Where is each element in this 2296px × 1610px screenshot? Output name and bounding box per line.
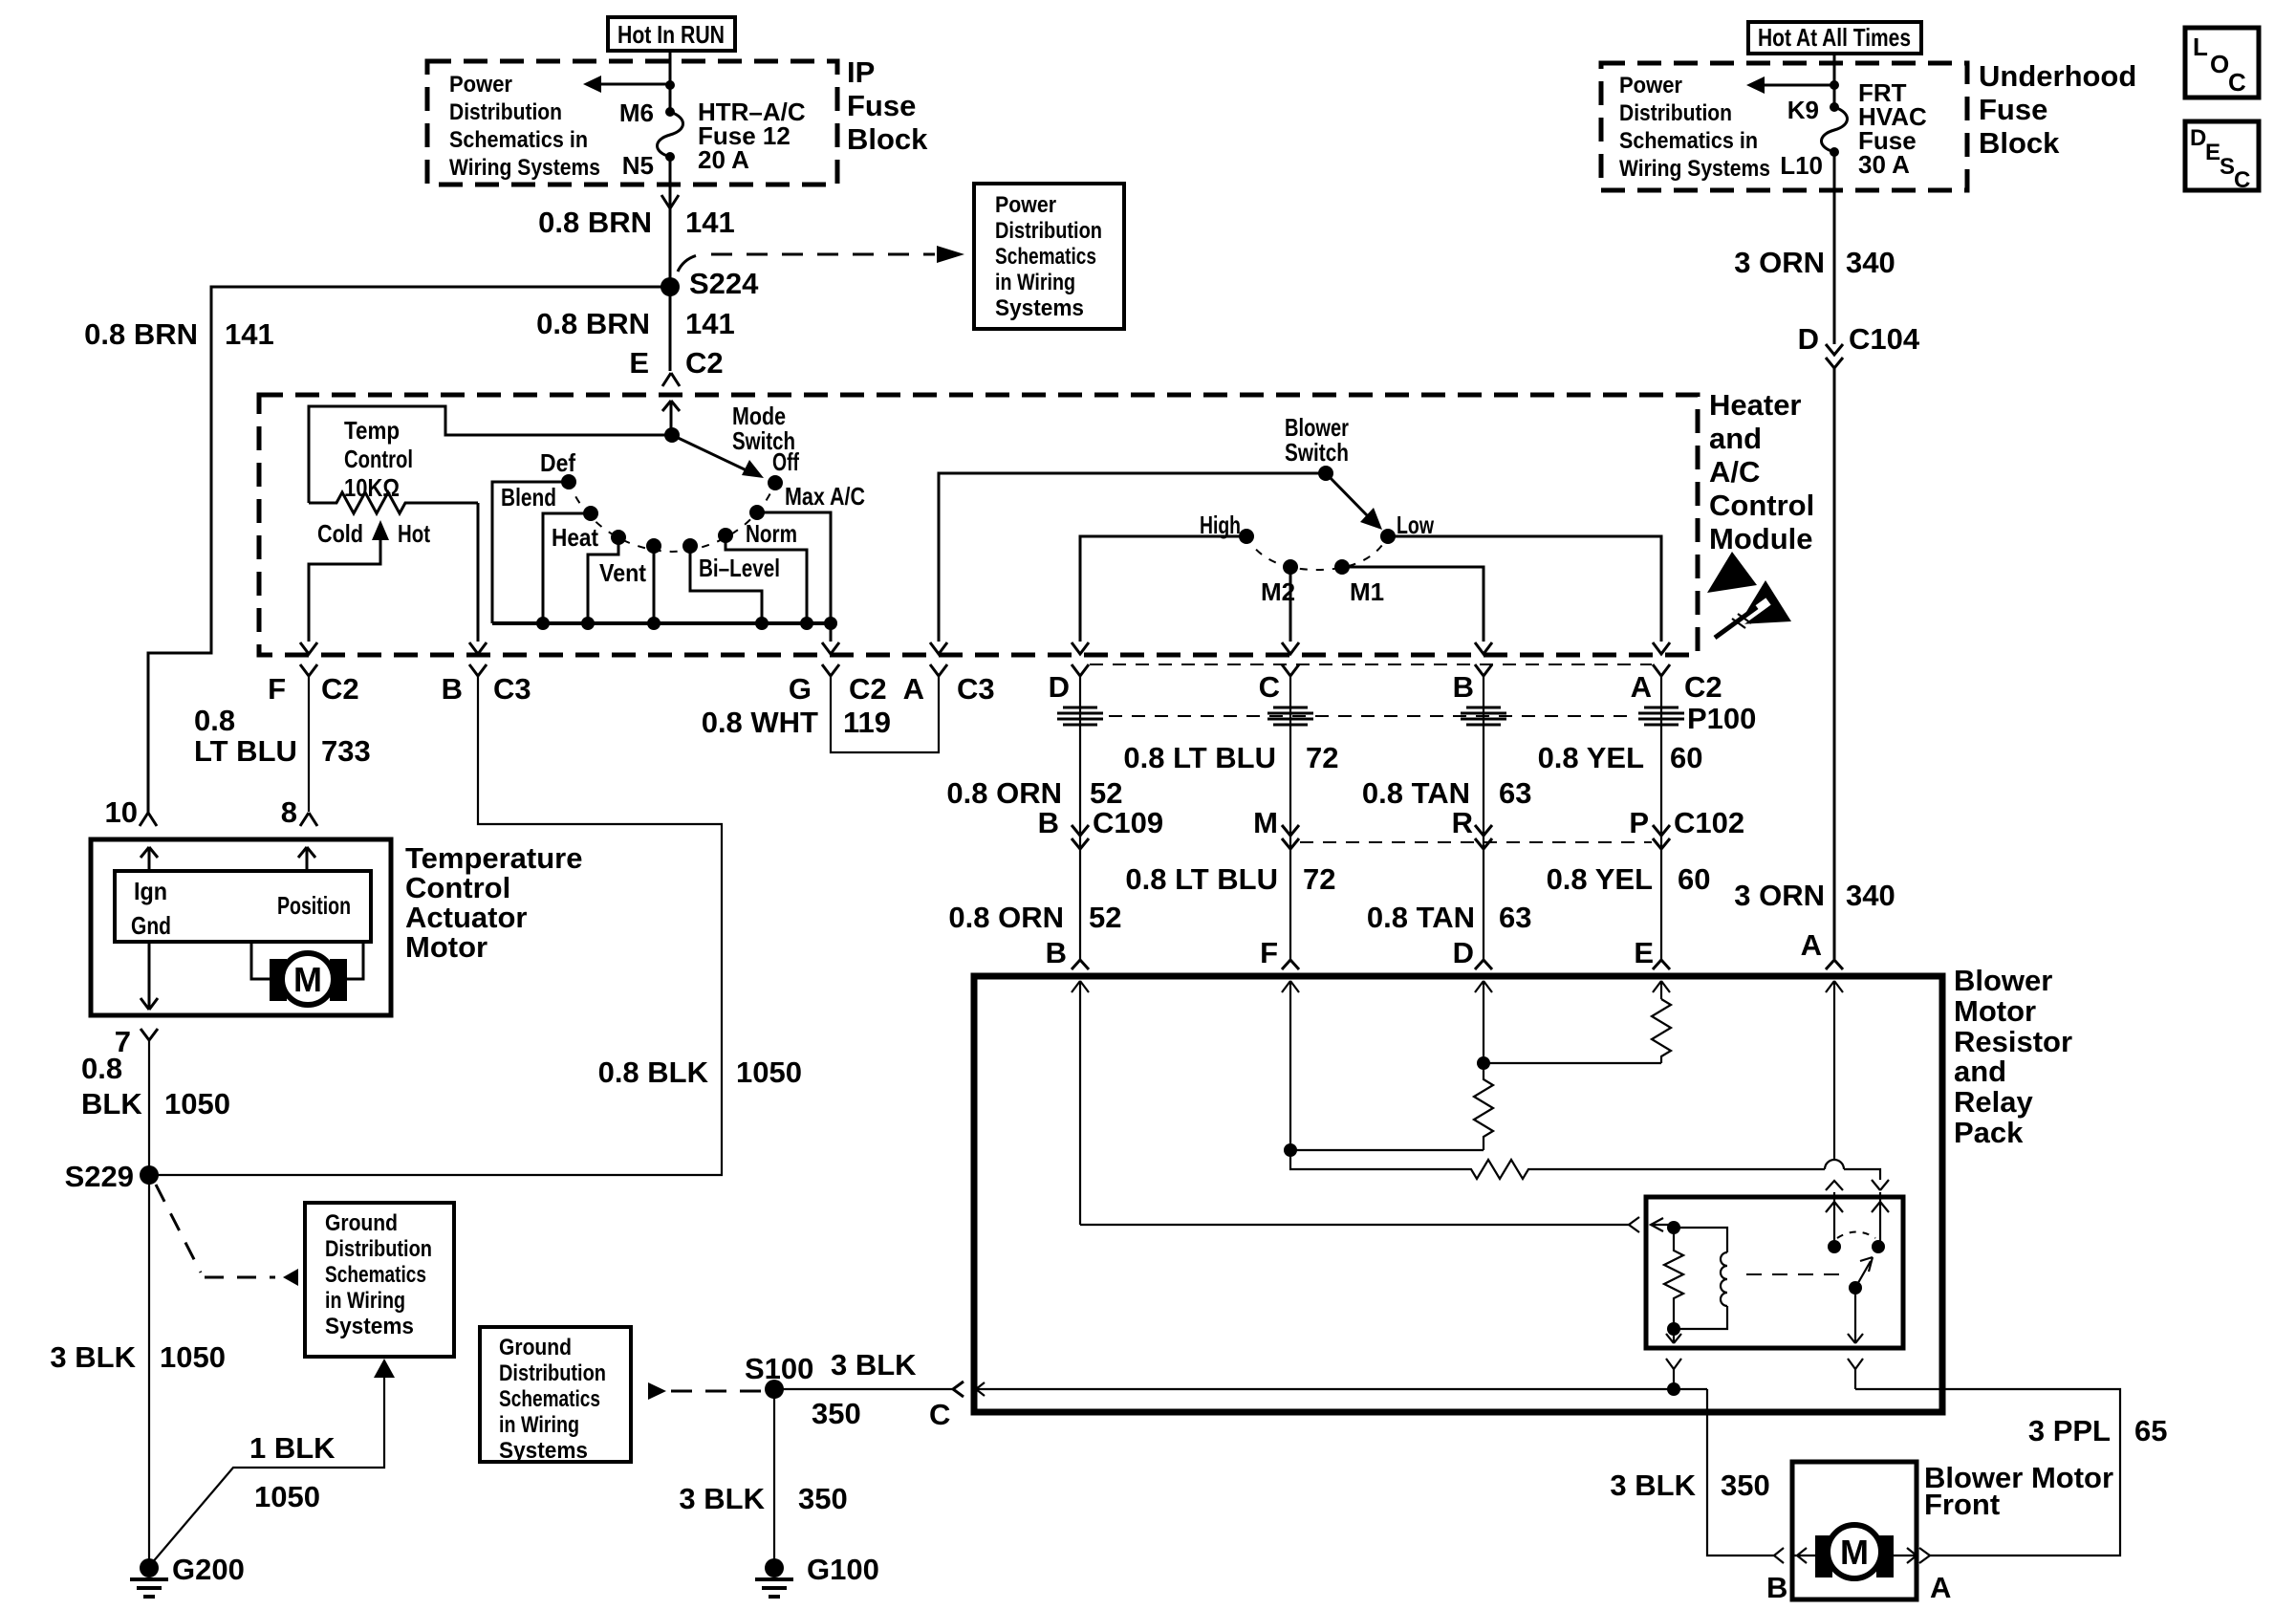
svg-text:A: A — [1631, 670, 1652, 704]
svg-text:Temperature: Temperature — [405, 841, 583, 875]
wire label 0.8 YEL 60 (lower, A column) — [1547, 862, 1711, 896]
wire 0.8 LT BLU 733 from F C2 to actuator pin 8 — [308, 676, 310, 812]
svg-text:733: 733 — [321, 734, 371, 768]
svg-text:O: O — [2210, 50, 2229, 78]
actuator Ign input arrow — [141, 847, 158, 871]
svg-text:Schematics: Schematics — [499, 1386, 600, 1412]
svg-text:Block: Block — [1979, 126, 2060, 160]
Blower Motor Front box — [1792, 1461, 2113, 1599]
svg-text:72: 72 — [1306, 741, 1338, 774]
cold hot labels — [317, 519, 430, 548]
Ground Distribution reference box 1 — [305, 1203, 454, 1357]
blower motor A terminal — [1894, 1548, 1951, 1604]
dashed grommet line and P100 label — [1109, 702, 1756, 735]
svg-text:10KΩ: 10KΩ — [344, 473, 400, 502]
svg-text:Bi–Level: Bi–Level — [699, 554, 780, 582]
mode position Heat — [552, 523, 626, 623]
svg-text:S224: S224 — [689, 267, 759, 300]
svg-text:Resistor: Resistor — [1954, 1025, 2072, 1058]
fuse HTR-A/C Fuse 12 20A — [658, 107, 683, 185]
svg-text:60: 60 — [1670, 741, 1702, 774]
actuator Gnd output arrow — [141, 942, 158, 1010]
wire label 1 BLK 1050 — [249, 1431, 336, 1513]
fuse FRT HVAC Fuse 30A — [1822, 102, 1848, 190]
junction F to D resistor bottom — [1284, 1143, 1484, 1157]
connector D below module (C2 row) — [1049, 664, 1089, 704]
svg-text:Cold: Cold — [317, 519, 363, 548]
terminal D at resistor pack — [1453, 936, 1492, 969]
power distribution tap arrow (IP box) — [583, 76, 675, 93]
svg-text:M1: M1 — [1350, 577, 1384, 606]
svg-text:in Wiring: in Wiring — [499, 1412, 579, 1438]
svg-text:Systems: Systems — [499, 1438, 588, 1464]
svg-text:Power: Power — [449, 72, 512, 98]
svg-text:0.8 WHT: 0.8 WHT — [702, 706, 818, 739]
blower position M2 — [1261, 559, 1299, 654]
terminal F at resistor pack — [1260, 936, 1299, 969]
connector G C2 below module — [789, 664, 887, 706]
svg-text:Actuator: Actuator — [405, 901, 527, 934]
mode position Norm — [718, 519, 807, 623]
svg-text:Off: Off — [772, 447, 799, 476]
svg-text:3 BLK: 3 BLK — [1610, 1469, 1696, 1502]
svg-text:Relay: Relay — [1954, 1085, 2033, 1119]
svg-text:Distribution: Distribution — [449, 99, 562, 125]
svg-text:K9: K9 — [1787, 96, 1819, 124]
relay suppression resistor — [1664, 1228, 1683, 1329]
terminal 10 at actuator — [105, 795, 157, 829]
svg-text:Pack: Pack — [1954, 1116, 2024, 1149]
actuator motor M — [251, 942, 363, 1005]
svg-text:Front: Front — [1924, 1488, 2000, 1521]
svg-text:Wiring Systems: Wiring Systems — [449, 155, 600, 181]
svg-text:Control: Control — [405, 871, 510, 904]
mode position Vent — [599, 538, 661, 623]
Blower Motor Resistor and Relay Pack box — [974, 976, 1942, 1412]
svg-text:Control: Control — [1709, 489, 1814, 522]
connector R C102 on B column — [1452, 806, 1492, 849]
wire C line from pack C to relay exits — [976, 1382, 1707, 1396]
svg-text:C: C — [2228, 68, 2246, 97]
fuse value label — [698, 98, 806, 174]
wire C column from module to resistor pack F — [1289, 676, 1291, 959]
DESC box — [2185, 121, 2259, 193]
fuse terminal labels K9 L10 — [1780, 96, 1823, 180]
svg-text:0.8 ORN: 0.8 ORN — [948, 901, 1064, 934]
svg-text:Temp: Temp — [344, 416, 400, 445]
temp control wiper arrow — [309, 520, 389, 642]
pack input arrow E — [1653, 981, 1670, 999]
underhood fuse block reference text — [1619, 73, 1770, 182]
power distribution tap arrow (underhood box) — [1746, 76, 1839, 94]
junction D to E resistor bottom — [1477, 1056, 1661, 1070]
wire 3 PPL 65 from relay to blower motor A — [1855, 1389, 2167, 1556]
wire label 0.8 WHT 119 — [702, 706, 891, 739]
dashed reference arrow box 2 to S100 — [648, 1382, 765, 1400]
svg-text:3 BLK: 3 BLK — [831, 1348, 917, 1382]
svg-text:Distribution: Distribution — [499, 1360, 606, 1386]
svg-text:Schematics in: Schematics in — [1619, 128, 1758, 154]
svg-text:0.8 BLK: 0.8 BLK — [598, 1055, 709, 1089]
mode switch arm arrow — [672, 435, 764, 478]
connector E C2 at module — [629, 346, 723, 435]
connector B C109 on D column — [1038, 806, 1164, 849]
svg-text:Def: Def — [540, 448, 575, 477]
relay box — [1646, 1197, 1903, 1348]
svg-text:LT BLU: LT BLU — [194, 734, 297, 768]
svg-text:141: 141 — [685, 206, 735, 239]
wire B column from module to resistor pack D — [1483, 676, 1484, 959]
svg-text:3 ORN: 3 ORN — [1734, 879, 1825, 912]
svg-text:141: 141 — [685, 307, 735, 340]
svg-text:A: A — [903, 672, 924, 706]
svg-text:1050: 1050 — [160, 1340, 226, 1374]
svg-text:0.8 TAN: 0.8 TAN — [1362, 776, 1470, 810]
terminal 7 below actuator — [115, 1025, 158, 1058]
splice S100 — [745, 1352, 813, 1399]
svg-text:350: 350 — [1721, 1469, 1770, 1502]
svg-text:63: 63 — [1499, 776, 1531, 810]
relay coil actuation dashed line — [1746, 1273, 1847, 1275]
wire label 0.8 ORN 52 (lower, D column) — [948, 901, 1121, 934]
svg-text:Wiring Systems: Wiring Systems — [1619, 156, 1770, 182]
Heater and A/C Control Module dashed box — [259, 395, 1698, 655]
blower motor M symbol — [1815, 1525, 1894, 1578]
wire label 0.8 LT BLU 733 — [194, 704, 371, 768]
temp control resistor 10K — [309, 492, 478, 513]
svg-text:Power: Power — [1619, 73, 1682, 98]
svg-text:B: B — [1046, 936, 1067, 969]
svg-text:65: 65 — [2134, 1414, 2167, 1447]
svg-text:Systems: Systems — [325, 1314, 414, 1339]
svg-text:A/C: A/C — [1709, 455, 1760, 489]
wire label 0.8 LT BLU 72 (upper, C column) — [1123, 741, 1338, 774]
Ground Distribution reference box 2 — [480, 1327, 631, 1464]
mode position Bi-Level — [682, 538, 780, 623]
wire 3 BLK 350 to blower motor B — [1610, 1389, 1774, 1556]
Temperature Control Actuator Motor outer box — [91, 839, 391, 1015]
svg-text:E: E — [1634, 936, 1654, 969]
blower position High — [1072, 511, 1254, 654]
svg-text:350: 350 — [798, 1482, 848, 1515]
svg-text:A: A — [1801, 928, 1822, 962]
wire label 0.8 BRN 141 (above S224) — [538, 206, 735, 239]
wire 1 BLK 1050 from G200 to ground distribution box 1 — [151, 1359, 395, 1564]
svg-text:C2: C2 — [1684, 670, 1722, 704]
wire label 0.8 BLK 1050 (right leg) — [598, 1055, 802, 1089]
svg-text:141: 141 — [225, 317, 274, 351]
svg-text:D: D — [1049, 670, 1070, 704]
svg-text:S229: S229 — [65, 1160, 134, 1193]
wire 3 ORN 340 from C104 down to blower resistor pack A — [1833, 368, 1836, 959]
wire 0.8 BLK 1050 from pin 7 to S229 — [148, 1040, 150, 1175]
svg-text:3 PPL: 3 PPL — [2028, 1414, 2111, 1447]
mode switch pivot — [664, 427, 680, 443]
IP fuse block reference text — [449, 72, 600, 181]
svg-text:0.8 ORN: 0.8 ORN — [946, 776, 1062, 810]
svg-text:0.8 LT BLU: 0.8 LT BLU — [1123, 741, 1276, 774]
resistor E column (high resistor) — [1652, 999, 1671, 1063]
svg-text:C: C — [2234, 167, 2250, 193]
Hot At All Times flag box — [1748, 22, 1921, 54]
svg-text:0.8: 0.8 — [81, 1052, 122, 1085]
svg-text:Hot: Hot — [398, 519, 430, 548]
wire A column from module to resistor pack E — [1660, 676, 1662, 959]
pack input arrow F — [1282, 981, 1299, 1150]
blower motor B terminal — [1766, 1548, 1815, 1604]
svg-text:M: M — [1840, 1533, 1869, 1572]
svg-text:Heat: Heat — [552, 523, 598, 552]
svg-text:C109: C109 — [1093, 806, 1163, 839]
mode position Max A/C — [749, 482, 865, 623]
mode switch label — [732, 402, 795, 455]
Hot In RUN flag box — [608, 17, 735, 51]
wire B column inside pack to relay — [1080, 1224, 1629, 1226]
svg-text:D: D — [1453, 936, 1474, 969]
wire label 0.8 LT BLU 72 (lower, C column) — [1125, 862, 1335, 896]
IP Fuse Block label — [847, 55, 928, 156]
svg-text:L10: L10 — [1780, 151, 1823, 180]
svg-text:F: F — [268, 672, 286, 706]
svg-text:Fuse: Fuse — [1979, 93, 2047, 126]
wire from Hot At All Times into fuse — [1833, 54, 1836, 107]
wire 0.8 WHT 119 loop G to A — [831, 676, 939, 752]
svg-text:R: R — [1452, 806, 1473, 839]
svg-text:340: 340 — [1846, 246, 1895, 279]
svg-text:Motor: Motor — [405, 930, 487, 964]
svg-text:0.8 BRN: 0.8 BRN — [84, 317, 198, 351]
bus exit arrow G C2 — [822, 623, 839, 654]
relay right exit connector — [1848, 1359, 1863, 1389]
svg-text:in Wiring: in Wiring — [995, 270, 1075, 295]
actuator inner logic box — [115, 871, 371, 942]
Power Distribution reference box (middle) — [974, 184, 1124, 329]
pack input arrow A — [1826, 981, 1843, 1159]
svg-text:C102: C102 — [1674, 806, 1744, 839]
svg-text:Distribution: Distribution — [1619, 100, 1732, 126]
connector A C3 below module — [903, 664, 995, 706]
blower switch feed wire from A C3 — [930, 473, 1326, 654]
svg-text:Vent: Vent — [599, 558, 646, 587]
svg-text:M: M — [293, 960, 322, 999]
svg-text:and: and — [1709, 422, 1762, 455]
svg-text:N5: N5 — [622, 151, 654, 180]
svg-text:M6: M6 — [619, 98, 654, 127]
svg-text:Schematics: Schematics — [995, 244, 1096, 270]
svg-text:Motor: Motor — [1954, 994, 2036, 1028]
wire label 0.8 ORN 52 (upper, D column) — [946, 776, 1122, 810]
blower switch arm arrow — [1326, 473, 1382, 530]
wire 3 BLK 1050 S229 to G200 — [148, 1175, 150, 1568]
wire label 3 ORN 340 (top) — [1734, 246, 1895, 279]
wire 0.8 BLK 1050 from B C3 down to S229 — [149, 676, 722, 1175]
svg-text:P100: P100 — [1687, 702, 1756, 735]
svg-text:Max A/C: Max A/C — [785, 482, 865, 511]
svg-text:0.8 YEL: 0.8 YEL — [1538, 741, 1644, 774]
dashed reference arrow S229 to ground distribution box — [156, 1185, 298, 1286]
relay switch fixed contacts — [1828, 1232, 1885, 1254]
svg-text:0.8: 0.8 — [194, 704, 235, 737]
blower position Low — [1380, 511, 1670, 654]
svg-text:B: B — [1038, 806, 1059, 839]
pack input arrow D — [1475, 981, 1492, 1063]
low resistor horizontal — [1290, 1150, 1825, 1179]
svg-text:340: 340 — [1846, 879, 1895, 912]
splice hump at A feed — [1825, 1160, 1880, 1180]
svg-text:63: 63 — [1499, 901, 1531, 934]
fuse terminal labels M6 N5 — [619, 98, 654, 180]
svg-text:1050: 1050 — [254, 1480, 320, 1513]
wire module feed from E C2 to mode switch pivot and temp control — [309, 406, 671, 503]
wire label 3 ORN 340 (bottom) — [1734, 879, 1895, 912]
svg-text:E: E — [629, 346, 649, 380]
mode position Def — [492, 448, 576, 623]
wire S224 branch left (0.8 BRN 141 to actuator pin 10) — [148, 287, 670, 813]
svg-text:IP: IP — [847, 55, 875, 89]
svg-text:Blower: Blower — [1954, 964, 2052, 997]
svg-text:Systems: Systems — [995, 295, 1084, 321]
svg-text:Schematics in: Schematics in — [449, 127, 588, 153]
wire 3 BLK 350 S100 to relay pack C — [774, 1348, 952, 1430]
wire label 0.8 YEL 60 (upper, A column) — [1538, 741, 1703, 774]
wire D column from module to resistor pack B — [1079, 676, 1081, 959]
svg-text:Block: Block — [847, 122, 928, 156]
svg-text:0.8 YEL: 0.8 YEL — [1547, 862, 1653, 896]
svg-text:C2: C2 — [685, 346, 724, 380]
wiper output exit arrow (F C2) — [300, 642, 317, 654]
svg-text:Distribution: Distribution — [995, 218, 1102, 244]
svg-text:3 BLK: 3 BLK — [679, 1482, 765, 1515]
terminal A at resistor pack — [1801, 928, 1843, 969]
relay pin connectors — [1826, 1180, 1889, 1247]
svg-text:E: E — [2205, 140, 2220, 165]
svg-text:Distribution: Distribution — [325, 1236, 432, 1262]
mode switch dashed arc — [569, 482, 775, 552]
svg-text:60: 60 — [1678, 862, 1710, 896]
relay left exit connector — [1666, 1359, 1681, 1389]
svg-text:20 A: 20 A — [698, 145, 749, 174]
svg-text:B: B — [1453, 670, 1474, 704]
relay switch input arrows — [1826, 1202, 1889, 1212]
IP Fuse Block dashed box — [427, 61, 837, 185]
blower switch label — [1285, 413, 1349, 467]
grommet P100 on A column — [1638, 707, 1684, 725]
dashed connector line C102 — [1300, 841, 1652, 843]
splice S229 — [65, 1160, 159, 1193]
svg-text:G: G — [789, 672, 812, 706]
wire 3 ORN 340 from fuse block down — [1833, 190, 1836, 344]
wire 3 BLK 350 S100 to G100 — [679, 1389, 847, 1562]
connector C at relay pack — [929, 1382, 964, 1431]
mode position dot Off — [768, 447, 799, 490]
terminal E at resistor pack — [1634, 936, 1670, 969]
svg-text:Gnd: Gnd — [131, 911, 171, 940]
svg-text:C: C — [1259, 670, 1280, 704]
svg-text:1050: 1050 — [164, 1087, 230, 1120]
svg-text:Fuse: Fuse — [847, 89, 916, 122]
wire label 3 BLK 1050 — [50, 1340, 226, 1374]
svg-text:G200: G200 — [172, 1553, 245, 1586]
svg-text:Power: Power — [995, 192, 1056, 218]
svg-text:A: A — [1930, 1571, 1951, 1604]
svg-text:119: 119 — [843, 706, 891, 739]
svg-text:Ground: Ground — [325, 1210, 398, 1236]
terminal 8 at actuator — [281, 795, 317, 829]
relay coil entry from B wire — [1629, 1217, 1680, 1234]
svg-text:Hot At All Times: Hot At All Times — [1758, 23, 1911, 52]
splice S224 — [661, 267, 759, 300]
svg-text:1050: 1050 — [736, 1055, 802, 1089]
svg-text:10: 10 — [105, 795, 138, 829]
svg-text:0.8 BRN: 0.8 BRN — [538, 206, 652, 239]
svg-text:1 BLK: 1 BLK — [249, 1431, 336, 1465]
svg-text:in Wiring: in Wiring — [325, 1288, 405, 1314]
ESD sensitive symbol — [1707, 552, 1791, 638]
connector D C104 — [1798, 322, 1920, 368]
grommet P100 on B column — [1461, 707, 1506, 725]
wire label 0.8 TAN 63 (lower, B column) — [1367, 901, 1532, 934]
ground G100 — [755, 1553, 879, 1597]
Underhood Fuse Block dashed box — [1601, 63, 1967, 190]
grommet P100 on C column — [1267, 707, 1313, 725]
svg-text:C2: C2 — [321, 672, 359, 706]
dashed reference arrow S224 to power distribution box — [678, 246, 964, 272]
svg-text:C: C — [929, 1398, 950, 1431]
wire S224 down to module entry E C2 — [669, 287, 672, 371]
svg-text:0.8 LT BLU: 0.8 LT BLU — [1125, 862, 1278, 896]
wire fuse to S224 — [661, 185, 679, 287]
svg-text:Module: Module — [1709, 522, 1813, 555]
svg-text:D: D — [1798, 322, 1819, 356]
svg-text:3 BLK: 3 BLK — [50, 1340, 136, 1374]
svg-text:C3: C3 — [493, 672, 531, 706]
svg-text:M: M — [1253, 806, 1278, 839]
connector F C2 below module — [268, 664, 359, 706]
svg-text:Schematics: Schematics — [325, 1262, 426, 1288]
svg-text:52: 52 — [1090, 776, 1122, 810]
temp control label — [344, 416, 413, 502]
svg-text:P: P — [1629, 806, 1649, 839]
svg-text:8: 8 — [281, 795, 297, 829]
svg-text:Heater: Heater — [1709, 388, 1802, 422]
connector M C102 on C column — [1253, 806, 1299, 849]
svg-text:D: D — [2190, 125, 2206, 151]
svg-text:BLK: BLK — [81, 1087, 142, 1120]
resistor D column (mid resistor) — [1474, 1063, 1493, 1150]
terminal B at resistor pack — [1046, 936, 1089, 969]
grommet P100 on D column — [1057, 707, 1103, 725]
actuator name label — [405, 841, 583, 964]
wire from Hot In RUN into fuse — [669, 51, 672, 112]
ground G200 — [130, 1553, 245, 1597]
svg-text:and: and — [1954, 1055, 2006, 1088]
wire label 0.8 BLK 1050 (left) — [81, 1052, 230, 1120]
relay switch arm — [1848, 1257, 1873, 1343]
svg-text:Underhood: Underhood — [1979, 59, 2136, 93]
connector B below module (C2 row) — [1453, 664, 1492, 704]
blower switch dashed arc — [1246, 536, 1388, 570]
temp control right leg down to B C3 exit — [469, 503, 487, 654]
actuator Position input arrow — [298, 847, 315, 871]
svg-text:72: 72 — [1303, 862, 1335, 896]
svg-text:0.8 TAN: 0.8 TAN — [1367, 901, 1475, 934]
blower switch pivot — [1318, 466, 1333, 481]
connector A C2 below module — [1631, 664, 1722, 704]
svg-text:C2: C2 — [849, 672, 887, 706]
relay coil — [1667, 1228, 1727, 1336]
pack input arrow B — [1072, 981, 1089, 1225]
dashed connector line C2 — [1090, 664, 1652, 665]
